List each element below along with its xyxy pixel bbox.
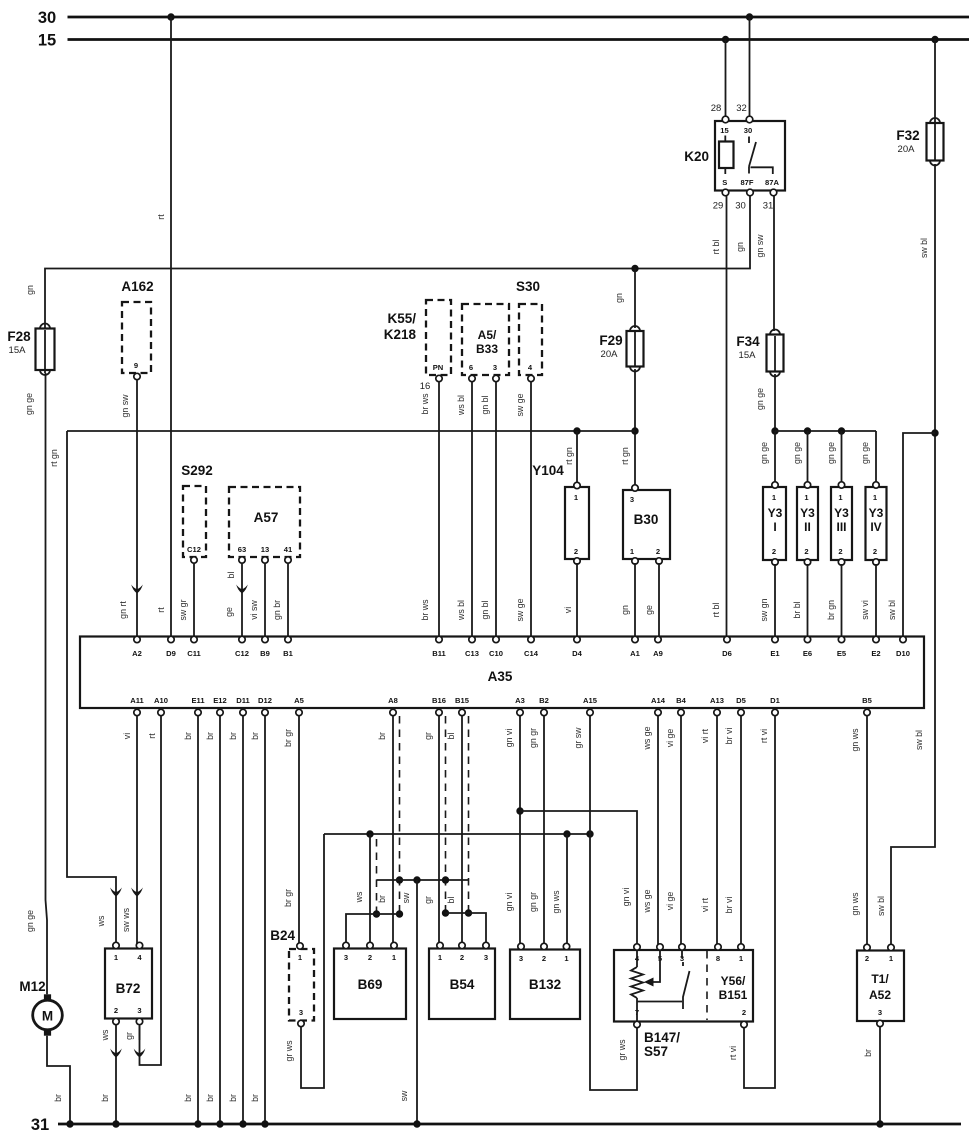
svg-text:sw ws: sw ws — [121, 907, 131, 932]
valve Y3 I — [763, 482, 786, 565]
svg-text:3: 3 — [484, 953, 488, 962]
svg-text:E5: E5 — [837, 649, 847, 658]
wire rt gn branch to Y104 — [564, 427, 581, 484]
svg-text:E1: E1 — [770, 649, 780, 658]
svg-text:A57: A57 — [254, 510, 279, 525]
svg-text:S30: S30 — [516, 279, 540, 294]
svg-text:sw gr: sw gr — [178, 599, 188, 620]
svg-text:gr: gr — [423, 732, 433, 740]
svg-text:vi: vi — [122, 733, 132, 739]
wire gn gr: A35 B2 to B132 pin2 — [528, 716, 544, 944]
svg-text:31: 31 — [31, 1116, 49, 1134]
svg-text:B151: B151 — [719, 988, 748, 1002]
svg-text:D10: D10 — [896, 649, 910, 658]
relay K55/K218 — [384, 300, 451, 392]
A35 top pins — [132, 636, 910, 658]
svg-text:A15: A15 — [583, 696, 598, 705]
connector B24 — [270, 928, 314, 1027]
sensor B147/S57 + valve Y56/B151 combined box — [614, 944, 753, 1028]
valve Y3 III — [831, 482, 852, 565]
bus 31 — [31, 1116, 961, 1134]
svg-text:sw ge: sw ge — [515, 598, 525, 621]
svg-text:15: 15 — [38, 32, 56, 50]
svg-text:B147/: B147/ — [644, 1030, 680, 1045]
svg-text:15: 15 — [720, 126, 729, 135]
svg-text:D9: D9 — [166, 649, 176, 658]
wire rt gn: F29 to B30 pin3 — [620, 369, 639, 487]
wire gn br: A57 pin41 to A35 B1 — [272, 563, 288, 637]
svg-text:T1/: T1/ — [871, 972, 889, 986]
svg-text:C14: C14 — [524, 649, 539, 658]
svg-text:gn ge: gn ge — [755, 388, 765, 410]
svg-text:gn ge: gn ge — [826, 442, 836, 464]
wire sw gr: S292 to A35 C11 — [178, 563, 194, 637]
wire gn vi branch: A3 to B147 pin4 — [516, 807, 637, 944]
svg-text:ws: ws — [100, 1029, 110, 1041]
svg-text:3: 3 — [493, 363, 497, 372]
svg-text:gn: gn — [620, 605, 630, 615]
wire vi rt: A35 A13 to Y56 pin8 — [700, 716, 717, 944]
svg-text:A10: A10 — [154, 696, 168, 705]
svg-text:B54: B54 — [450, 977, 475, 992]
svg-text:gn: gn — [735, 242, 745, 252]
svg-text:A14: A14 — [651, 696, 666, 705]
svg-text:br: br — [250, 732, 260, 740]
shield: A8 wire screen — [396, 716, 403, 918]
svg-text:rt gn: rt gn — [620, 447, 630, 465]
svg-text:13: 13 — [261, 545, 269, 554]
svg-text:31: 31 — [763, 201, 774, 212]
control unit A35 — [80, 637, 924, 709]
wire gn: B30 pin1 to A35 A1 — [620, 563, 635, 637]
svg-text:br: br — [183, 732, 193, 740]
svg-text:gn: gn — [614, 293, 624, 303]
svg-text:gn ge: gn ge — [24, 393, 34, 415]
svg-text:D4: D4 — [572, 649, 582, 658]
node: screen stub on B69 pin3 line — [373, 910, 380, 917]
svg-text:rt: rt — [147, 733, 157, 739]
wire gn sw / gn rt: A162 to A35 A2 — [118, 380, 143, 637]
wire: bus15 to K20 pin28 — [722, 36, 729, 118]
svg-text:3: 3 — [519, 954, 523, 963]
connector S292 — [181, 463, 213, 563]
wire gr: B72 pin3 leg — [124, 1025, 145, 1058]
label B147/S57 — [644, 1030, 680, 1059]
svg-text:20A: 20A — [898, 144, 916, 155]
control unit A57 — [229, 487, 300, 563]
svg-text:ws bl: ws bl — [456, 395, 466, 416]
svg-text:gn sw: gn sw — [120, 394, 130, 418]
svg-text:30: 30 — [735, 201, 746, 212]
wire sw vi: Y3 IV to A35 E2 — [860, 564, 876, 637]
svg-text:B11: B11 — [432, 649, 446, 658]
svg-text:br ws: br ws — [420, 393, 430, 415]
svg-text:30: 30 — [744, 126, 752, 135]
wire vi: Y104 to A35 D4 — [563, 563, 577, 637]
svg-text:D6: D6 — [722, 649, 732, 658]
svg-text:F28: F28 — [7, 329, 31, 344]
svg-text:gn ge: gn ge — [860, 442, 870, 464]
svg-text:A5: A5 — [294, 696, 304, 705]
svg-text:rt vi: rt vi — [728, 1046, 738, 1060]
fuse F34 15A — [736, 330, 783, 377]
svg-text:gn ge: gn ge — [25, 910, 35, 932]
svg-text:Y3: Y3 — [800, 506, 815, 520]
wire gn bl: A5/B33 pin3 to A35 C10 — [480, 382, 496, 637]
svg-text:B9: B9 — [260, 649, 270, 658]
svg-text:br: br — [228, 732, 238, 740]
svg-text:32: 32 — [736, 103, 747, 114]
wire: screens to B54 pin3 — [446, 913, 487, 944]
wire vi / sw ws: A35 A11 to B72 pin4 — [121, 716, 143, 944]
wire sw: shield drain to bus31 — [399, 880, 421, 1128]
shield: B15 wire screen — [465, 716, 472, 917]
svg-text:bl: bl — [226, 572, 236, 579]
valve Y3 IV — [866, 482, 887, 565]
svg-text:2: 2 — [772, 547, 776, 556]
svg-text:S292: S292 — [181, 463, 213, 478]
wire ge: B30 pin2 to A35 A9 — [644, 563, 659, 637]
wire sw gn: Y3 I to A35 E1 — [759, 564, 775, 637]
svg-text:br gn: br gn — [826, 600, 836, 620]
svg-text:gn ws: gn ws — [551, 890, 561, 914]
wire br: A35 A8 to B69 pin1 — [377, 716, 393, 944]
svg-text:bl: bl — [446, 733, 456, 740]
svg-text:A2: A2 — [132, 649, 142, 658]
svg-text:A1: A1 — [630, 649, 640, 658]
svg-text:br: br — [100, 1094, 110, 1102]
svg-text:2: 2 — [368, 953, 372, 962]
svg-text:br: br — [228, 1094, 238, 1102]
svg-text:sw: sw — [399, 1090, 409, 1101]
svg-text:E11: E11 — [191, 696, 205, 705]
rail A15 ground reference y834 — [324, 830, 594, 837]
wire br: T1 pin3 to bus31 — [863, 1027, 884, 1128]
svg-text:A9: A9 — [653, 649, 663, 658]
svg-text:16: 16 — [420, 381, 431, 392]
control unit A162 — [121, 279, 153, 380]
wire vi ge: A35 B4 to B147 pin3 — [665, 716, 681, 944]
svg-text:2: 2 — [114, 1006, 118, 1015]
wire br bl: Y3 II to A35 E6 — [792, 564, 808, 637]
svg-text:2: 2 — [804, 547, 808, 556]
svg-text:8: 8 — [716, 954, 720, 963]
svg-text:sw gn: sw gn — [759, 598, 769, 621]
svg-text:Y56/: Y56/ — [721, 974, 746, 988]
wire br: M12 to bus31 — [47, 1036, 74, 1128]
svg-text:br: br — [205, 1094, 215, 1102]
svg-text:rt vi: rt vi — [759, 729, 769, 743]
svg-text:S57: S57 — [644, 1044, 668, 1059]
sensor B72 — [105, 942, 152, 1024]
svg-text:gr: gr — [423, 896, 433, 904]
wire br vi: A35 D5 to Y56 pin1 — [724, 716, 741, 944]
svg-text:C10: C10 — [489, 649, 503, 658]
svg-text:6: 6 — [469, 363, 473, 372]
svg-text:A13: A13 — [710, 696, 724, 705]
wire gr ws: B24 pin3 U-turn up to A15 rail — [284, 834, 324, 1088]
svg-text:br bl: br bl — [792, 601, 802, 618]
wire bl: A35 B15 to B54 pin2 — [446, 716, 462, 944]
wire br: A35 E12 to bus31 — [205, 716, 224, 1128]
svg-text:gn gr: gn gr — [528, 728, 538, 748]
wire bl/ge: A57 pin63 to A35 C12 — [224, 563, 248, 637]
svg-text:gn rt: gn rt — [118, 601, 128, 619]
svg-text:3: 3 — [630, 495, 634, 504]
svg-text:2: 2 — [460, 953, 464, 962]
shield bus y880 — [377, 876, 469, 883]
wire ws: rail to B69 pin2 — [354, 834, 370, 944]
svg-text:gr ws: gr ws — [284, 1040, 294, 1062]
svg-text:E12: E12 — [213, 696, 227, 705]
svg-text:Y3: Y3 — [869, 506, 884, 520]
svg-text:gn bl: gn bl — [480, 600, 490, 619]
svg-text:D11: D11 — [236, 696, 250, 705]
svg-text:M12: M12 — [19, 979, 45, 994]
svg-text:B132: B132 — [529, 977, 561, 992]
svg-text:M: M — [42, 1009, 53, 1024]
svg-text:vi sw: vi sw — [249, 600, 259, 620]
svg-text:B30: B30 — [634, 512, 659, 527]
svg-text:vi rt: vi rt — [700, 728, 710, 743]
svg-text:br gr: br gr — [283, 729, 293, 747]
wire ws: rt gn rail down-left to B72 pin1 — [67, 431, 122, 944]
svg-text:gn ge: gn ge — [792, 442, 802, 464]
svg-text:D1: D1 — [770, 696, 780, 705]
A35 bottom pins — [130, 696, 872, 716]
svg-text:A52: A52 — [869, 988, 891, 1002]
svg-text:E2: E2 — [871, 649, 880, 658]
wire ws bl: A5/B33 pin6 to A35 C13 — [456, 382, 472, 637]
wire gr: A35 B16 to B54 pin1 — [423, 716, 439, 944]
svg-text:gr ws: gr ws — [617, 1039, 627, 1061]
svg-text:87A: 87A — [765, 178, 779, 187]
wire gn ge: F28 to M12 — [24, 373, 47, 994]
svg-text:Y3: Y3 — [768, 506, 783, 520]
wire br: A35 D12 to bus31 — [250, 716, 269, 1128]
svg-text:ge: ge — [644, 605, 654, 615]
svg-text:ws ge: ws ge — [642, 726, 652, 750]
svg-text:F32: F32 — [896, 128, 919, 143]
svg-text:gn ws: gn ws — [850, 728, 860, 752]
svg-text:B4: B4 — [676, 696, 686, 705]
svg-text:A5/: A5/ — [478, 328, 497, 342]
svg-text:87F: 87F — [740, 178, 753, 187]
svg-text:gn sw: gn sw — [755, 234, 765, 258]
svg-text:S: S — [722, 178, 727, 187]
shield: left screen stub — [376, 839, 378, 914]
svg-text:PN: PN — [433, 363, 444, 372]
svg-text:gn vi: gn vi — [504, 893, 514, 912]
svg-text:gn: gn — [25, 285, 35, 295]
svg-text:2: 2 — [656, 547, 660, 556]
wire: B69 pin3 to screen joints y914 — [346, 914, 400, 944]
bus 30 — [38, 9, 969, 27]
svg-text:gn vi: gn vi — [504, 729, 514, 748]
svg-text:C11: C11 — [187, 649, 201, 658]
svg-text:ws: ws — [96, 915, 106, 927]
svg-text:A11: A11 — [130, 696, 144, 705]
wire gr sw: A35 A15 down to B147 pin7 U-turn — [573, 716, 637, 1090]
svg-text:rt: rt — [156, 214, 166, 220]
svg-text:B24: B24 — [270, 928, 295, 943]
svg-text:B33: B33 — [476, 342, 498, 356]
svg-text:2: 2 — [838, 547, 842, 556]
svg-text:gn ws: gn ws — [850, 892, 860, 916]
wire br gr: A35 A5 to B24 pin1 — [283, 716, 299, 944]
node + rail gn ge feeding Y3 I-IV — [759, 427, 876, 484]
svg-text:F29: F29 — [599, 333, 622, 348]
svg-text:63: 63 — [238, 545, 246, 554]
svg-text:br ws: br ws — [420, 599, 430, 621]
node: gn to F29 branch — [614, 265, 639, 328]
svg-text:41: 41 — [284, 545, 293, 554]
svg-text:2: 2 — [873, 547, 877, 556]
svg-text:br vi: br vi — [724, 897, 734, 914]
svg-text:IV: IV — [870, 520, 881, 534]
wire br gn: Y3 III to A35 E5 — [826, 564, 842, 637]
bus 15 — [38, 32, 969, 50]
svg-text:br vi: br vi — [724, 728, 734, 745]
svg-text:B69: B69 — [358, 977, 383, 992]
fuse F28 15A — [7, 324, 54, 375]
svg-text:9: 9 — [134, 361, 138, 370]
svg-text:A35: A35 — [488, 669, 513, 684]
svg-text:K218: K218 — [384, 327, 417, 342]
svg-text:ws bl: ws bl — [456, 600, 466, 621]
svg-text:29: 29 — [713, 201, 724, 212]
svg-text:sw vi: sw vi — [860, 600, 870, 620]
svg-text:sw bl: sw bl — [887, 600, 897, 620]
svg-text:2: 2 — [574, 547, 578, 556]
wire br: A35 E11 to bus31 — [183, 716, 202, 1128]
wire rt vi: A35 D1 down U-turn to Y56 pin2 — [728, 716, 775, 1088]
svg-text:2: 2 — [542, 954, 546, 963]
svg-text:20A: 20A — [601, 349, 619, 360]
wire gn ws: rail to B132 pin1 — [551, 834, 567, 944]
svg-text:B15: B15 — [455, 696, 470, 705]
sensor B69 — [334, 942, 406, 1019]
svg-text:sw bl: sw bl — [876, 896, 886, 916]
svg-text:3: 3 — [299, 1008, 303, 1017]
sensor B30 — [623, 485, 670, 564]
svg-text:B16: B16 — [432, 696, 446, 705]
switch S30 — [516, 279, 542, 382]
svg-text:3: 3 — [344, 953, 348, 962]
svg-text:br gr: br gr — [283, 889, 293, 907]
svg-text:br: br — [377, 895, 387, 903]
svg-text:gn br: gn br — [272, 600, 282, 620]
svg-text:B1: B1 — [283, 649, 293, 658]
svg-text:vi: vi — [563, 607, 573, 613]
svg-text:C12: C12 — [235, 649, 249, 658]
svg-text:D5: D5 — [736, 696, 746, 705]
wire br: A35 D11 to bus31 — [228, 716, 247, 1128]
wire gn vi: A35 A3 to B132 pin3 — [504, 716, 520, 944]
svg-text:br: br — [250, 1094, 260, 1102]
control unit A5/B33 — [462, 304, 509, 382]
svg-text:28: 28 — [711, 103, 722, 114]
ignition coil T1/A52 — [857, 944, 904, 1026]
svg-text:rt gn: rt gn — [564, 447, 574, 465]
sensor B132 — [510, 943, 580, 1019]
svg-text:br: br — [863, 1049, 873, 1057]
svg-text:gr sw: gr sw — [573, 727, 583, 749]
svg-text:Y3: Y3 — [834, 506, 849, 520]
wire rt: bus30 to A35 D9 — [156, 13, 175, 637]
svg-text:F34: F34 — [736, 334, 760, 349]
svg-text:C12: C12 — [187, 545, 201, 554]
svg-text:rt bl: rt bl — [711, 240, 721, 255]
wire vi sw: A57 pin13 to A35 B9 — [249, 563, 265, 637]
svg-text:30: 30 — [38, 9, 56, 27]
svg-text:ws: ws — [354, 891, 364, 903]
wire sw bl branch to A35 D10 — [887, 429, 939, 637]
svg-text:ws ge: ws ge — [642, 889, 652, 913]
svg-text:III: III — [836, 520, 846, 534]
wire ws ge: A35 A14 to B147 pin5 — [642, 716, 658, 944]
svg-text:sw: sw — [401, 892, 411, 903]
svg-text:2: 2 — [865, 954, 869, 963]
relay K20 — [684, 103, 785, 212]
svg-text:bl: bl — [446, 897, 456, 904]
wire gn: K20 pin30 to F28 top — [25, 196, 750, 325]
wire rt bl: K20 pin29 to A35 D6 — [711, 196, 727, 637]
svg-text:D12: D12 — [258, 696, 272, 705]
svg-text:sw bl: sw bl — [919, 238, 929, 258]
svg-text:br: br — [183, 1094, 193, 1102]
fuse F32 20A — [896, 36, 943, 166]
valve Y3 II — [797, 482, 818, 565]
wire rt: A35 A10 down, U-turn to B72 pin3 — [140, 716, 162, 1065]
svg-text:gn bl: gn bl — [480, 395, 490, 414]
svg-text:A3: A3 — [515, 696, 525, 705]
svg-text:Y104: Y104 — [532, 463, 564, 478]
svg-text:sw bl: sw bl — [914, 730, 924, 750]
svg-text:K20: K20 — [684, 149, 709, 164]
svg-text:E6: E6 — [803, 649, 812, 658]
svg-text:rt bl: rt bl — [711, 603, 721, 618]
wire br ws: K55 to A35 B11 — [420, 382, 439, 637]
svg-text:3: 3 — [137, 1006, 141, 1015]
svg-text:II: II — [804, 520, 811, 534]
fuse F29 20A — [599, 326, 643, 372]
svg-text:B5: B5 — [862, 696, 872, 705]
wire gn ge: F34 to Y3 rail — [755, 374, 775, 431]
svg-text:vi ge: vi ge — [665, 892, 675, 911]
svg-text:B72: B72 — [116, 981, 141, 996]
wire sw bl: F32 down right side to T1 pin1 — [876, 164, 935, 944]
B147 internals: switch S57 — [682, 950, 690, 1009]
B147 internals: potentiometer — [631, 950, 682, 1021]
svg-text:2: 2 — [742, 1008, 746, 1017]
valve Y104 — [565, 482, 589, 564]
sensor B54 — [429, 942, 495, 1019]
shield: B16 wire screen — [442, 716, 449, 917]
svg-text:vi ge: vi ge — [665, 729, 675, 748]
motor M12 — [19, 979, 62, 1036]
svg-text:I: I — [773, 520, 776, 534]
svg-text:gn gr: gn gr — [528, 892, 538, 912]
wire: bus30 to K20 pin32 — [746, 13, 753, 118]
svg-text:B2: B2 — [539, 696, 549, 705]
svg-text:A162: A162 — [121, 279, 153, 294]
rail rt gn — [49, 431, 635, 467]
wire sw ge: S30 to A35 C14 — [515, 382, 531, 637]
svg-text:ge: ge — [224, 607, 234, 617]
svg-text:A8: A8 — [388, 696, 398, 705]
svg-text:rt gn: rt gn — [49, 449, 59, 467]
